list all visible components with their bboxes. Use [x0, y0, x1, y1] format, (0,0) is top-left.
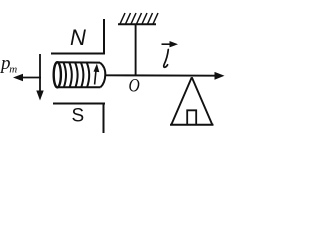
svg-text:O: O — [129, 75, 141, 96]
svg-text:m: m — [9, 64, 17, 76]
label p_m — [0, 53, 17, 76]
coil turns — [64, 63, 90, 88]
svg-text:S: S — [72, 106, 85, 127]
magnet pole N bracket — [51, 19, 105, 55]
svg-text:N: N — [70, 25, 86, 50]
magnet pole S bracket — [53, 103, 105, 134]
ceiling fixed support — [118, 13, 158, 24]
small window inside fulcrum — [187, 110, 196, 124]
vector arrow p_m (pointing left) — [13, 74, 41, 81]
force arrow (pointing down) — [36, 54, 43, 101]
lever beam with right arrow — [105, 72, 225, 80]
coil body outline — [58, 62, 106, 87]
suspension wire from ceiling to beam at O — [135, 25, 137, 76]
vector l label with arrow — [162, 41, 179, 67]
fulcrum prism (triangle with base) — [170, 77, 214, 125]
coil left end cap — [54, 62, 61, 87]
coil current arrow (up) — [94, 64, 100, 85]
